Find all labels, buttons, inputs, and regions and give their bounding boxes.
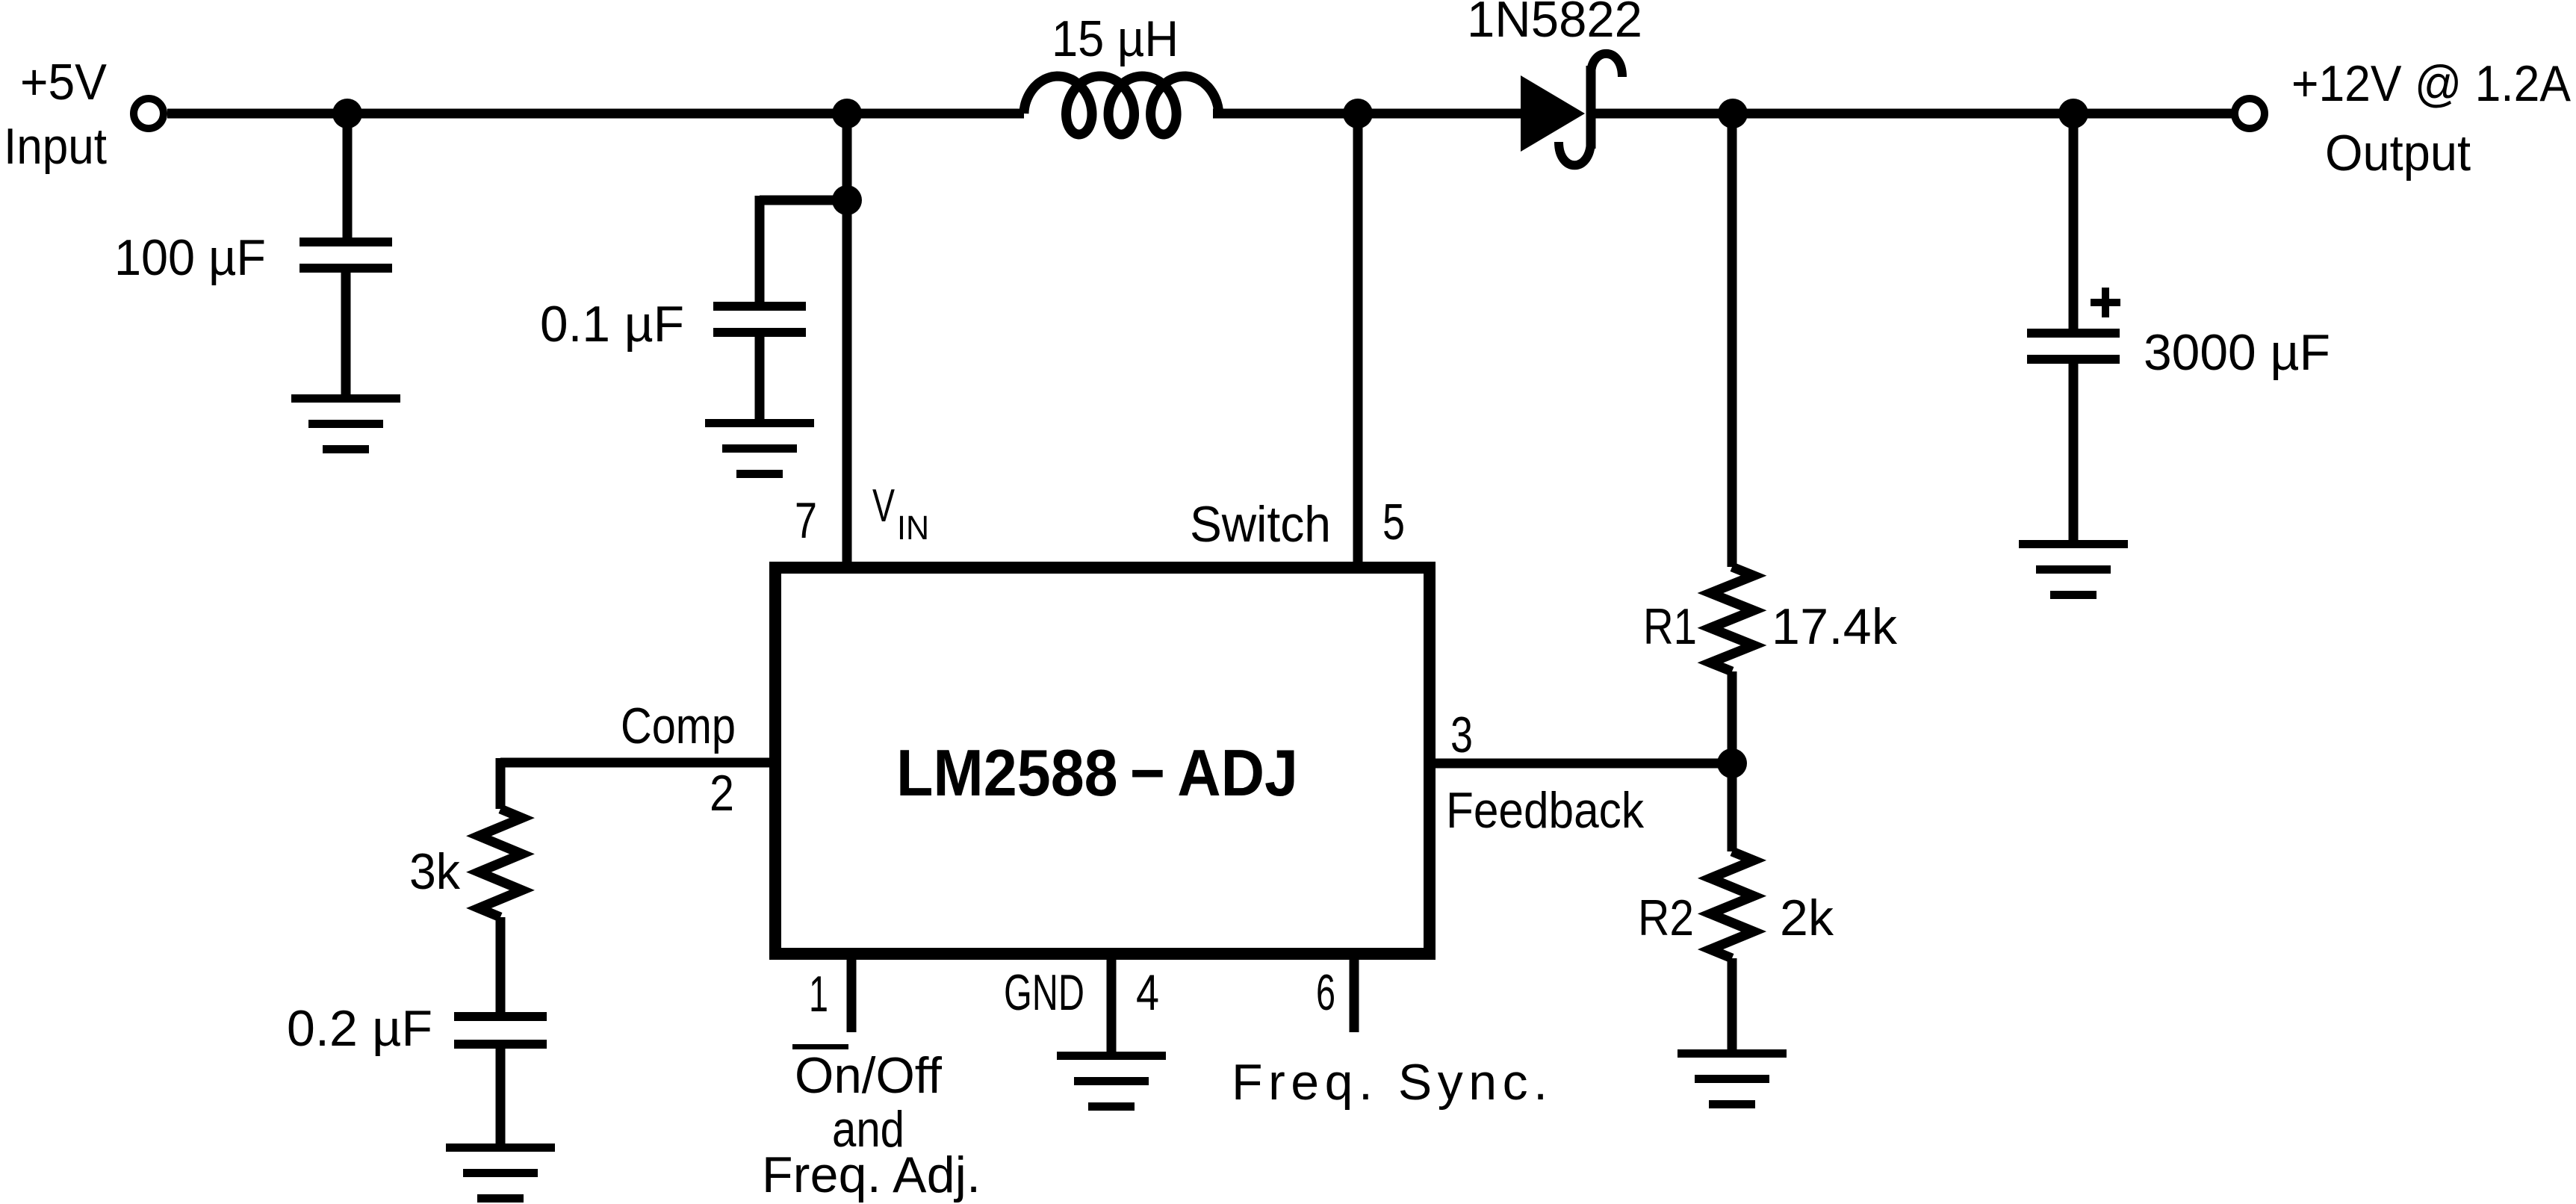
wire: pin 4 stub [1107,954,1117,1052]
wire: R1 top lead [1728,114,1737,567]
svg-text:3: 3 [1450,707,1473,763]
ground (GND pin) [1057,1052,1166,1111]
wire: top rail middle (inductor to diode anode) [1213,109,1521,119]
terminal: +12V output [2235,99,2265,128]
wire: pin 5 vertical [1353,114,1363,568]
wire: top rail right (diode cathode to output) [1594,109,2232,119]
svg-text:17.4k: 17.4k [1772,598,1898,655]
svg-text:4: 4 [1136,964,1159,1021]
svg-text:2: 2 [710,765,734,822]
svg-text:On/Off: On/Off [795,1047,942,1104]
node: output divider junction [1718,99,1748,128]
svg-text:1N5822: 1N5822 [1467,0,1642,48]
svg-text:Feedback: Feedback [1446,782,1645,839]
wire: comp horizontal [500,758,775,768]
diode D 1N5822 anode triangle [1521,75,1585,152]
svg-text:GND: GND [1004,964,1084,1021]
inductor L 15uH [1024,76,1219,134]
label: + polarity [2091,288,2120,317]
node: output cap junction [2058,99,2088,128]
wire: 100uF upper lead [343,114,353,238]
svg-text:Input: Input [4,118,107,175]
svg-text:Freq. Sync.: Freq. Sync. [1232,1054,1548,1111]
wire: R2 top lead [1728,763,1737,851]
wire: 0.1uF lower lead [755,337,765,419]
wire: 3000uF lower lead [2069,364,2079,540]
svg-text:1: 1 [809,966,828,1023]
svg-text:0.1 µF: 0.1 µF [540,296,684,353]
svg-text:Output: Output [2325,125,2471,181]
ground (100uF) [291,394,400,453]
wire: pin 6 stub [1350,954,1359,1032]
wire: R1 bottom lead [1728,671,1737,763]
ground (0.1uF) [705,419,814,478]
wire: 100uF lower lead [341,273,351,394]
node: switch junction [1343,99,1373,128]
wire: 3k to 0.2uF [496,917,506,1012]
wire: R2 bottom lead [1728,958,1737,1049]
svg-text:+5V: +5V [20,54,108,111]
svg-text:3000 µF: 3000 µF [2144,324,2330,381]
svg-text:R2: R2 [1638,890,1694,946]
svg-text:Freq. Adj.: Freq. Adj. [762,1146,981,1203]
svg-text:IN: IN [897,509,929,547]
svg-text:6: 6 [1316,964,1335,1021]
node: feedback junction [1717,748,1747,778]
IC U1 LM2588-ADJ box [775,568,1430,954]
ground (R2) [1677,1049,1787,1108]
svg-text:R1: R1 [1643,598,1697,655]
resistor R1 17.4k [1710,567,1754,671]
capacitor C 100uF [300,238,392,273]
resistor R 3k [479,809,522,917]
svg-text:7: 7 [795,492,817,549]
wire: pin 7 vertical [842,114,852,568]
svg-text:0.2 µF: 0.2 µF [287,1000,432,1057]
svg-text:100 µF: 100 µF [114,229,266,286]
svg-text:Switch: Switch [1190,496,1331,553]
wire: 0.2uF lower lead [496,1048,506,1144]
node: 0.1uF tap junction [832,185,862,215]
svg-text:2k: 2k [1780,890,1834,946]
terminal: +5V input [134,99,164,128]
capacitor C 0.2uF [454,1012,547,1049]
wire: 0.1uF horizontal tap [760,196,847,205]
node: input junction [332,99,362,128]
resistor R2 2k [1710,851,1754,958]
svg-text:5: 5 [1382,494,1405,550]
wire: 0.1uF upper lead [755,196,765,302]
capacitor C 0.1uF [713,302,806,337]
wire: feedback horizontal (pin 3) [1430,759,1732,769]
svg-text:+12V @ 1.2A: +12V @ 1.2A [2291,55,2572,112]
wire: top rail left (input to inductor) [167,109,1024,119]
wire: comp vertical to 3k [496,758,506,809]
diode D 1N5822 schottky cathode bar [1559,54,1622,165]
wire: pin 1 stub [847,954,857,1032]
svg-text:V: V [872,480,895,532]
wire: 3000uF upper lead [2069,114,2079,329]
ground (0.2uF) [446,1144,555,1203]
svg-text:15 µH: 15 µH [1052,10,1179,67]
svg-text:LM2588 − ADJ: LM2588 − ADJ [896,736,1298,810]
node: Vin junction on rail [832,99,862,128]
capacitor C 3000uF [2027,329,2120,364]
ground (3000uF) [2019,540,2128,599]
label: On/Off with overline [792,1044,942,1104]
svg-text:Comp: Comp [621,698,736,754]
svg-text:3k: 3k [409,843,461,900]
